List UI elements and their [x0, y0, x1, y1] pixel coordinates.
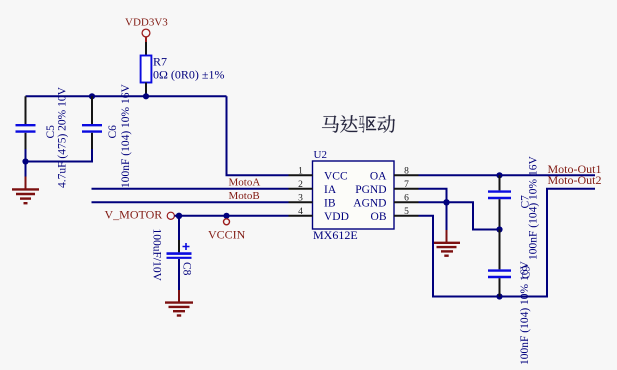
wire pin 6 AGND to C7/C9 node [419, 202, 500, 229]
pin 7 PGND [355, 180, 418, 196]
svg-text:0Ω (0R0) ±1%: 0Ω (0R0) ±1% [153, 68, 225, 82]
wire pin 7 PGND to ground [419, 189, 447, 203]
capacitor C7 [488, 155, 540, 260]
power port VDD3V3 [125, 17, 168, 43]
svg-text:V_MOTOR: V_MOTOR [105, 208, 163, 222]
svg-text:6: 6 [404, 194, 409, 204]
svg-text:AGND: AGND [353, 197, 386, 209]
junction dot C8 top [176, 213, 182, 219]
ground GND right of U2 [433, 202, 460, 255]
svg-text:MotoA: MotoA [229, 177, 261, 189]
capacitor C9 [488, 230, 533, 366]
svg-text:VCC: VCC [324, 170, 348, 182]
port circle VCCIN [224, 219, 230, 225]
svg-text:MX612E: MX612E [313, 228, 358, 242]
svg-text:PGND: PGND [355, 184, 386, 196]
svg-text:C6: C6 [107, 125, 119, 139]
junction dot C7 C9 node [496, 226, 502, 232]
svg-text:OA: OA [370, 170, 387, 182]
svg-text:IA: IA [324, 184, 337, 196]
svg-text:100nF (104) 10% 16V: 100nF (104) 10% 16V [120, 83, 132, 188]
IC U2 MX612E body [313, 161, 395, 229]
svg-text:100nF (104) 10% 16V: 100nF (104) 10% 16V [519, 260, 531, 365]
svg-text:MotoB: MotoB [229, 190, 260, 202]
wire net MotoB [92, 201, 289, 203]
port circle V_MOTOR [167, 212, 174, 219]
svg-text:1: 1 [298, 167, 303, 177]
junction dot C5 bottom [22, 158, 28, 164]
wire C5 to C6 bottom [26, 161, 93, 163]
junction dot R7 bus [143, 93, 149, 99]
svg-text:VDD: VDD [324, 211, 349, 223]
svg-text:4: 4 [298, 207, 303, 217]
capacitor C5 [16, 86, 69, 188]
svg-text:5: 5 [404, 207, 409, 217]
junction dot VCCIN [223, 213, 229, 219]
svg-text:VDD3V3: VDD3V3 [125, 17, 168, 29]
wire bus to pin1 VCC [227, 96, 289, 175]
svg-text:Moto-Out2: Moto-Out2 [548, 173, 602, 187]
wire pin 5 OB to Moto-Out2 [419, 189, 596, 297]
ground GND under C8 [165, 290, 193, 316]
junction dot AGND [443, 199, 449, 205]
pin 4 VDD [289, 207, 349, 223]
junction dot C6 bus [89, 93, 95, 99]
svg-text:R7: R7 [153, 55, 167, 69]
svg-text:8: 8 [404, 167, 409, 177]
ground GND under C5 [12, 162, 39, 204]
svg-text:3: 3 [298, 194, 303, 204]
svg-text:2: 2 [298, 180, 303, 190]
pin 6 AGND [353, 194, 418, 210]
svg-text:7: 7 [404, 180, 409, 190]
svg-text:IB: IB [324, 197, 336, 209]
junction dot C9 bottom [496, 293, 502, 299]
wire V_MOTOR to pin 4 [175, 215, 289, 217]
wire top bus [26, 95, 227, 97]
pin 5 OB [371, 207, 419, 223]
svg-text:4.7uF (475) 20% 10V: 4.7uF (475) 20% 10V [57, 86, 69, 188]
capacitor C6 [82, 83, 132, 188]
pin 8 OA [370, 167, 419, 183]
svg-text:U2: U2 [314, 149, 327, 161]
pin 3 IB [289, 194, 336, 210]
resistor R7 [141, 42, 225, 96]
svg-text:OB: OB [371, 211, 387, 223]
svg-text:VCCIN: VCCIN [208, 228, 246, 242]
svg-text:100nF (104) 10% 16V: 100nF (104) 10% 16V [528, 155, 540, 260]
wire net MotoA [92, 188, 289, 190]
title text 马达驱动 [322, 115, 395, 133]
pin 2 IA [289, 180, 337, 196]
pin 1 VCC [289, 167, 348, 183]
svg-text:C5: C5 [45, 125, 57, 139]
capacitor C8 polarized [151, 216, 193, 290]
svg-text:100uF/10V: 100uF/10V [151, 229, 163, 282]
wire net Moto-Out1 (pin 8 OA) [419, 174, 596, 176]
svg-text:C8: C8 [181, 262, 193, 276]
junction dot C7 top [496, 172, 502, 178]
